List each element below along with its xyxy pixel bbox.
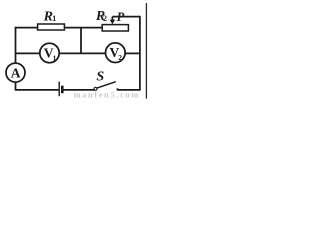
wire left side lower (ammeter to bottom wire) (15, 82, 17, 91)
battery long plate (+) (58, 82, 60, 97)
battery short plate (-) (61, 86, 64, 94)
ammeter A (6, 63, 25, 82)
voltmeter V1 (40, 43, 59, 62)
label R2 (95, 9, 107, 24)
wire slider to top-right corner (112, 16, 140, 18)
wire voltmeter row right (V2 to right wire) (125, 52, 140, 54)
resistor R1 (38, 24, 65, 30)
switch S right contact dot (116, 88, 118, 90)
svg-text:1: 1 (52, 14, 56, 23)
voltmeter V2 (106, 43, 126, 63)
rheostat slider arrow P (110, 17, 115, 25)
wire voltmeter row middle (V1 to V2) (59, 52, 105, 54)
wire left side upper (top corner down to ammeter) (15, 27, 17, 63)
wire right side vertical (139, 16, 141, 91)
right border line (scan edge) (145, 3, 147, 99)
svg-text:A: A (11, 66, 21, 81)
label R1 (43, 9, 57, 24)
wire top-left horizontal (corner to R1) (15, 27, 38, 29)
wire R1 to R2 (top middle) (64, 27, 102, 29)
svg-text:S: S (96, 70, 104, 85)
background (0, 0, 148, 99)
svg-text:2: 2 (103, 14, 107, 23)
switch S blade (97, 82, 116, 88)
wire bottom right (switch to right corner) (118, 89, 140, 91)
wire bottom left (to battery) (16, 89, 59, 91)
switch S hinge circle (94, 87, 97, 90)
node junction vertical (top wire down to voltmeter row) (80, 28, 82, 54)
svg-text:manfen5.com: manfen5.com (74, 90, 140, 99)
svg-text:1: 1 (53, 53, 57, 62)
rheostat R2 track (102, 25, 128, 31)
svg-text:2: 2 (118, 53, 122, 62)
wire bottom middle (battery to switch) (64, 89, 95, 91)
wire voltmeter row left (left wire to V1) (16, 52, 40, 54)
